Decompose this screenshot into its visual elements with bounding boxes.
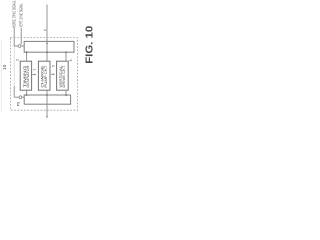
junction dot: [46, 94, 48, 96]
wire U1 to bottom register: [26, 90, 28, 95]
block U2 charge pump: [38, 61, 50, 90]
block U1 timing generator: [20, 61, 31, 90]
svg-text:2: 2: [15, 59, 19, 61]
arrowhead on clock wire: [46, 43, 48, 45]
wire clock input long vertical: [46, 5, 48, 62]
svg-text:DRIVE CKT: DRIVE CKT: [62, 66, 66, 88]
wire input 1 branch to top register: [14, 45, 18, 47]
register block bottom: [24, 95, 70, 104]
svg-text:5: 5: [52, 65, 56, 67]
junction dot: [26, 51, 28, 53]
junction dot: [65, 51, 67, 53]
wire input 2 vertical: [20, 28, 22, 44]
svg-text:7: 7: [33, 69, 37, 71]
svg-text:PUMP CKT: PUMP CKT: [44, 66, 48, 88]
junction dot: [26, 94, 28, 96]
junction dot clock: [46, 51, 48, 53]
wire terminal T1 to top register: [21, 45, 24, 47]
svg-text:VERT. SYNC SIGNAL: VERT. SYNC SIGNAL: [18, 3, 23, 27]
dashed device boundary: [10, 37, 77, 110]
block U3 vertical driver: [57, 61, 69, 90]
wire input 1 vertical: [13, 28, 15, 47]
svg-text:PS: PS: [16, 101, 20, 106]
label tick on clock wire: [44, 29, 46, 32]
wire top register to U1: [26, 52, 28, 61]
terminal T2: [19, 96, 22, 99]
register block top: [24, 41, 74, 52]
wire terminal T2 to bottom register: [22, 96, 24, 98]
svg-text:6: 6: [69, 59, 73, 61]
svg-text:FIG. 10: FIG. 10: [85, 26, 94, 64]
junction dot: [65, 94, 67, 96]
svg-text:GEN'RATOR: GEN'RATOR: [26, 65, 30, 88]
wire top register to U3: [65, 52, 67, 61]
scan edge artifact: [0, 40, 2, 112]
wire U2 to bottom register and output: [46, 90, 48, 117]
svg-text:HORIZ. SYNC SIGNAL: HORIZ. SYNC SIGNAL: [12, 0, 17, 27]
wire U3 to bottom register: [65, 90, 67, 95]
terminal T1: [18, 45, 21, 48]
svg-text:10: 10: [2, 64, 8, 70]
wire input 1 to bottom register: [14, 96, 19, 98]
